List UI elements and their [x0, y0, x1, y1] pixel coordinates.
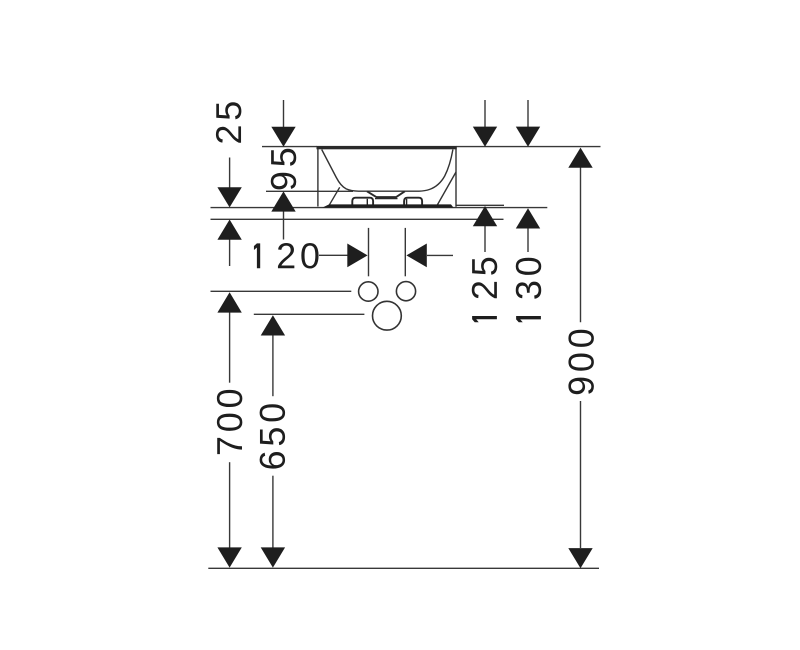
wire dim-25 lower tail stem [229, 239, 231, 266]
washbasin left foot inner line [366, 199, 368, 205]
washbasin inner bowl curve [322, 150, 453, 192]
arrow dim-125 top (down) [473, 127, 497, 147]
wire dim-900 stem lower [580, 401, 582, 548]
arrow dim-25 top (down) [217, 187, 241, 207]
wire 125 reference line [457, 204, 505, 206]
washbasin right foot inner line [406, 199, 408, 205]
wire 120 dimension tail right [427, 254, 453, 256]
wire dim-700 stem upper [229, 312, 231, 383]
washbasin base plate strip [322, 204, 453, 207]
wire hole-2 extension line [404, 228, 406, 276]
arrowheads [217, 127, 592, 569]
arrow dim-700 top (up) [217, 292, 241, 312]
wire 120 dimension tail left [319, 254, 348, 256]
wire dim-650 stem upper [272, 335, 274, 396]
wire dim-95 upper stem [283, 100, 285, 128]
faucet hole small right [396, 282, 415, 301]
label 650 [260, 404, 285, 468]
wire dim-130 lower stem [527, 228, 529, 252]
wire dim-130 upper stem [527, 100, 529, 128]
arrow dim-120 right (left-pointing) [406, 244, 426, 268]
wire big-hole level line [254, 313, 365, 315]
washbasin drain recess inner bottom line [375, 198, 398, 200]
washbasin drain recess [367, 191, 405, 197]
wire dim-125 lower stem [484, 226, 486, 252]
washbasin right foot [404, 198, 422, 205]
label 120 [254, 243, 319, 268]
wire dim-25 upper stem [229, 158, 231, 189]
wire dim-650 stem lower [272, 476, 274, 548]
arrow dim-130 top (down) [516, 127, 540, 147]
label 125 [472, 258, 497, 323]
washbasin right outer-shell diagonal [437, 172, 456, 205]
wire dim-900 stem upper [580, 167, 582, 322]
wire dim-700 stem lower [229, 462, 231, 548]
wire floor line [208, 567, 599, 569]
wire rim extension line left [262, 146, 317, 148]
wire hole-1 extension line [368, 228, 370, 276]
arrow dim-95 top (down) [271, 127, 295, 147]
faucet hole big center [373, 301, 402, 330]
washbasin left outer-shell diagonal [329, 187, 340, 206]
arrow dim-130 bottom (up) [516, 208, 540, 228]
label 95 [271, 149, 296, 190]
wire small-holes level line [211, 290, 352, 292]
washbasin right wall [455, 147, 457, 207]
wire countertop top line [211, 207, 548, 209]
arrow dim-25 bottom (up) [217, 220, 241, 240]
label 25 [216, 102, 241, 143]
wire rim extension line right [457, 146, 601, 148]
faucet hole small left [359, 282, 378, 301]
wire countertop bottom line [211, 218, 504, 220]
wire dim-125 upper stem [484, 100, 486, 128]
washbasin rim band [317, 146, 457, 149]
arrow dim-900 bottom (down) [568, 548, 592, 568]
arrow dim-95 bottom (up) [271, 191, 295, 211]
arrow dim-650 bottom (down) [261, 547, 285, 567]
washbasin left wall [317, 147, 319, 207]
label 900 [568, 330, 593, 395]
wire dim-95 lower tail stem [283, 211, 285, 240]
arrow dim-900 top (up) [568, 148, 592, 168]
wire 95-bottom reference line [266, 190, 353, 192]
washbasin section outline [318, 147, 456, 207]
arrow dim-700 bottom (down) [217, 547, 241, 567]
washbasin left foot [352, 198, 373, 205]
arrow dim-125 bottom (up) [473, 206, 497, 226]
label 130 [516, 258, 541, 323]
label 700 [217, 390, 242, 454]
arrow dim-650 top (up) [261, 315, 285, 335]
arrow dim-120 left (right-pointing) [347, 244, 367, 268]
